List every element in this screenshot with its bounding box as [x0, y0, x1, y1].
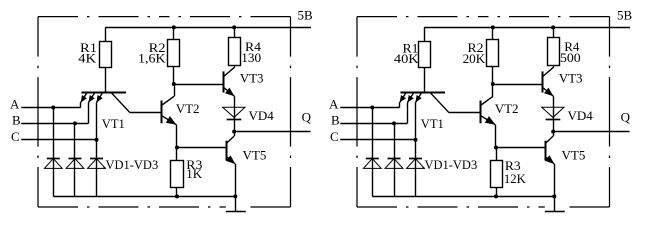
transistor VT2 (left gate) — [161, 84, 176, 148]
junction dot VT2e-R3-VT5b (left gate) — [175, 146, 179, 150]
svg-text:VT2: VT2 — [176, 101, 200, 116]
IC package boundary (dash-dot) (right gate) — [357, 17, 610, 207]
svg-text:B: B — [12, 112, 21, 127]
diode VD1 (left gate) — [44, 158, 62, 196]
transistor VT5 (right gate) — [545, 132, 554, 197]
svg-text:1,6K: 1,6K — [138, 51, 166, 66]
svg-text:B: B — [331, 112, 340, 127]
output Q wire (right gate) — [553, 131, 629, 133]
junction dot VT2e-R3-VT5b (right gate) — [494, 146, 498, 150]
junction dot on A (left gate) — [51, 106, 55, 110]
diode VD1 (right gate) — [363, 158, 381, 196]
period before VD1 (right gate) — [422, 167, 424, 169]
svg-text:VT2: VT2 — [495, 101, 519, 116]
junction dot R2-rail (right gate) — [491, 25, 495, 29]
svg-text:5B: 5B — [298, 8, 314, 23]
svg-text:5B: 5B — [617, 8, 633, 23]
junction dot R3-bus (left gate) — [175, 194, 179, 198]
junction dot R2-rail (left gate) — [172, 25, 176, 29]
output node dot (right gate) — [551, 130, 555, 134]
svg-text:C: C — [11, 129, 20, 144]
resistor R2 (right gate) — [487, 27, 499, 84]
input C wire (left gate) — [21, 139, 96, 141]
transistor VT3 (left gate) — [224, 67, 235, 107]
svg-text:VT5: VT5 — [562, 148, 586, 163]
svg-text:VT3: VT3 — [559, 70, 583, 85]
svg-text:1K: 1K — [186, 166, 203, 181]
svg-text:C: C — [330, 129, 339, 144]
transistor VT3 (right gate) — [543, 67, 554, 107]
svg-text:VD1-VD3: VD1-VD3 — [425, 157, 478, 172]
resistor R4 (right gate) — [548, 27, 560, 67]
diode VD3 (right gate) — [407, 158, 425, 196]
ground bus wire (left gate) — [53, 196, 235, 198]
svg-text:VD4: VD4 — [249, 108, 275, 123]
svg-text:VD4: VD4 — [568, 108, 594, 123]
ground symbol (right gate) — [545, 196, 565, 211]
junction dot on B (right gate) — [392, 121, 396, 125]
junction dot on A (right gate) — [370, 106, 374, 110]
transistor VT2 (right gate) — [480, 84, 495, 148]
junction dot on C (left gate) — [95, 138, 99, 142]
junction dot bus-ground (right gate) — [552, 194, 556, 198]
input B wire (right gate) — [340, 123, 407, 125]
resistor R1 (right gate) — [419, 27, 431, 92]
svg-text:VT1: VT1 — [421, 116, 444, 131]
svg-text:VT5: VT5 — [243, 148, 267, 163]
ground bus wire (right gate) — [372, 196, 554, 198]
wire to VT3 base (right gate) — [493, 84, 543, 86]
junction dot R2-VT2-VT3 (left gate) — [172, 82, 176, 86]
wire C to VD3 (left gate) — [96, 140, 98, 158]
junction dot on C (right gate) — [414, 138, 418, 142]
svg-text:Q: Q — [302, 109, 312, 124]
svg-text:20K: 20K — [463, 51, 486, 66]
svg-text:12K: 12K — [504, 171, 527, 186]
svg-text:130: 130 — [241, 50, 261, 65]
junction dot bus-ground (left gate) — [233, 194, 237, 198]
resistor R3 (right gate) — [491, 148, 503, 197]
svg-text:A: A — [10, 96, 20, 111]
wire B to VD2 (right gate) — [394, 123, 396, 158]
svg-text:40K: 40K — [394, 51, 419, 66]
svg-text:A: A — [329, 96, 339, 111]
svg-text:VT1: VT1 — [102, 116, 125, 131]
period before VD1 (left gate) — [103, 167, 105, 169]
transistor VT1 (multi-emitter input) (left gate) — [81, 92, 162, 140]
wire A to VD1 (right gate) — [372, 108, 374, 159]
+5V power rail (left gate) — [105, 27, 311, 29]
resistor R3 (left gate) — [171, 148, 184, 197]
input A wire (left gate) — [21, 107, 80, 109]
diode VD2 (right gate) — [385, 158, 403, 196]
svg-text:4K: 4K — [78, 50, 97, 65]
wire C to VD3 (right gate) — [415, 140, 417, 158]
transistor VT1 (multi-emitter input) (right gate) — [400, 92, 481, 140]
resistor R1 (left gate) — [100, 27, 112, 92]
svg-text:Q: Q — [621, 109, 631, 124]
input B wire (left gate) — [21, 123, 88, 125]
wire to VT3 base (left gate) — [174, 84, 224, 86]
resistor R2 (left gate) — [168, 27, 180, 84]
diode VD4 (left gate) — [223, 107, 245, 131]
output node dot (left gate) — [232, 130, 236, 134]
junction dot R4-rail (left gate) — [232, 25, 236, 29]
diode VD3 (left gate) — [88, 158, 106, 196]
svg-text:500: 500 — [560, 50, 581, 65]
wire R3 node to VT5 base (left gate) — [177, 147, 226, 149]
wire A to VD1 (left gate) — [53, 108, 55, 159]
junction dot R2-VT2-VT3 (right gate) — [491, 82, 495, 86]
junction dot on B (left gate) — [73, 121, 77, 125]
input C wire (right gate) — [340, 139, 415, 141]
output Q wire (left gate) — [234, 131, 310, 133]
+5V power rail (right gate) — [424, 27, 630, 29]
junction dot R3-bus (right gate) — [494, 194, 498, 198]
IC package boundary (dash-dot) (left gate) — [38, 17, 291, 207]
resistor R4 (left gate) — [229, 27, 241, 67]
wire B to VD2 (left gate) — [74, 123, 76, 158]
svg-text:VD1-VD3: VD1-VD3 — [106, 157, 159, 172]
wire R3 node to VT5 base (right gate) — [496, 147, 545, 149]
diode VD4 (right gate) — [542, 107, 564, 131]
input A wire (right gate) — [340, 107, 400, 109]
junction dot R4-rail (right gate) — [551, 25, 555, 29]
ground symbol (left gate) — [226, 196, 246, 211]
transistor VT5 (left gate) — [226, 132, 235, 197]
svg-text:VT3: VT3 — [240, 70, 264, 85]
diode VD2 (left gate) — [66, 158, 84, 196]
